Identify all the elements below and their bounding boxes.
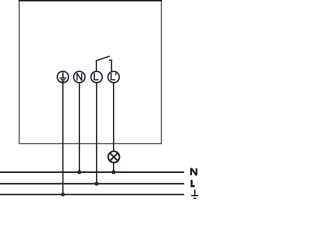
terminal PE	[57, 71, 68, 82]
switch S1 blade	[96, 56, 109, 61]
PE bus line	[0, 194, 184, 196]
device box (flush-mounted insert outline)	[19, 1, 161, 144]
terminal L	[91, 71, 102, 82]
lamp E1	[108, 151, 119, 162]
wire PE terminal to PE bus	[62, 82, 64, 194]
terminal N label	[77, 73, 82, 80]
junction dot PE wire / PE bus	[61, 193, 65, 197]
wire L' terminal to lamp	[113, 82, 115, 151]
wire L' terminal to switch contact	[111, 60, 113, 71]
terminal L' label	[111, 72, 116, 79]
terminal L'	[108, 71, 119, 82]
wire lamp to N bus	[113, 162, 115, 172]
wire N terminal to N bus	[78, 82, 80, 172]
junction dot L wire / L bus	[95, 182, 99, 186]
terminal L label	[94, 73, 98, 80]
wire L terminal to switch blade	[95, 60, 97, 72]
L bus line	[0, 183, 184, 185]
PE bus earth symbol	[191, 190, 198, 199]
junction dot lamp wire / N bus	[112, 170, 116, 174]
N bus line	[0, 171, 184, 173]
junction dot N wire / N bus	[78, 170, 82, 174]
wire L terminal to L bus	[96, 82, 98, 183]
device box top edge	[19, 0, 163, 2]
terminal N	[74, 71, 85, 82]
terminal PE earth symbol	[59, 72, 66, 81]
switch S1 fixed contact tick	[109, 59, 112, 61]
L bus label	[192, 180, 195, 186]
N bus label	[191, 168, 196, 175]
